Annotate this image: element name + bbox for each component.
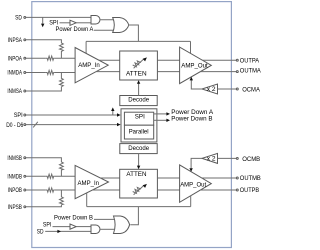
svg-text:OUTMB: OUTMB <box>240 175 261 182</box>
wire SPI to buffer <box>60 22 71 24</box>
svg-text:INMDA: INMDA <box>7 70 22 77</box>
pin OCMA <box>236 86 260 93</box>
svg-text:INMSB: INMSB <box>7 155 22 162</box>
power-down rail B <box>87 206 191 208</box>
wire AND B to OR B <box>100 228 115 230</box>
AND gate A <box>91 16 100 25</box>
wire INPOB to AMP_In B <box>54 189 75 191</box>
wire x2 A feedback <box>191 80 202 90</box>
pin INMSB <box>7 155 25 162</box>
wire Power Down A to OR A <box>94 29 115 31</box>
svg-text:OUTMA: OUTMA <box>240 68 262 75</box>
resistor INMDA-INMSA <box>60 73 64 87</box>
pin INPSA <box>8 37 26 44</box>
svg-text:Decode: Decode <box>128 97 149 104</box>
pin OUTMB <box>236 175 260 182</box>
SD down stub arrow <box>41 17 44 27</box>
wire OUTPB <box>201 189 237 191</box>
pin D0-D6 <box>6 122 26 129</box>
resistor INPSA-INPOA <box>60 43 64 58</box>
resistor INMDB series <box>46 174 55 178</box>
arrow x2 A into AMP_Out A <box>190 77 193 81</box>
wire ATTEN A to AMP_Out A bottom <box>157 71 179 73</box>
resistor INMSB-INMDB <box>60 162 64 176</box>
wire ATTEN B to AMP_Out B top <box>157 177 179 179</box>
op-amp AMP_Out B <box>180 165 212 202</box>
svg-text:INPOA: INPOA <box>8 55 23 62</box>
pin INPOA <box>8 55 26 62</box>
decoder Decode A <box>120 96 157 106</box>
svg-text:x 2: x 2 <box>207 86 216 93</box>
wire Power Down B to OR B <box>94 218 115 220</box>
pin SD (top) <box>15 14 26 21</box>
pin OUTPA <box>236 57 260 64</box>
resistor INPOA series <box>46 56 55 60</box>
pin INPSB <box>8 204 26 211</box>
wire SPI B to buffer <box>53 226 71 228</box>
OR gate B <box>114 216 130 234</box>
rail A drop to AMP_In A <box>85 41 87 53</box>
wire ATTEN A to AMP_Out A top <box>157 59 179 61</box>
wire Power Down A out <box>154 109 214 116</box>
svg-text:AMP_In: AMP_In <box>78 62 100 69</box>
svg-text:OUTPB: OUTPB <box>240 187 259 194</box>
wire OUTMA <box>200 71 236 73</box>
attenuator ATTEN B <box>120 169 158 198</box>
wire SD top <box>26 16 91 18</box>
svg-text:SPI: SPI <box>14 112 23 119</box>
SPI up stub arrow <box>111 107 114 115</box>
svg-text:x 2: x 2 <box>207 156 216 163</box>
wire OCMB <box>218 157 237 159</box>
OR gate A <box>113 18 129 33</box>
wire D0-D6 <box>26 124 118 126</box>
svg-text:AMP_Out: AMP_Out <box>180 182 206 189</box>
wire INMDB left <box>26 175 46 177</box>
wire buffer to AND A <box>76 22 91 24</box>
wire Power Down B out <box>154 115 213 122</box>
wire x2 B feedback <box>191 158 202 168</box>
decoder Decode B <box>120 144 157 154</box>
pin INPOB <box>8 187 26 194</box>
svg-text:INMSA: INMSA <box>7 88 22 95</box>
svg-text:SPI: SPI <box>43 222 52 229</box>
op-amp AMP_In B <box>75 165 108 198</box>
wire INMSA <box>26 87 62 91</box>
resistor INPOB-INPSB <box>60 190 64 205</box>
attenuator ATTEN A <box>120 51 158 80</box>
wire AMP_In B out top <box>101 177 120 179</box>
svg-text:SD: SD <box>15 14 22 21</box>
wire INMDA to AMP_In A <box>54 72 75 74</box>
svg-text:AMP_In: AMP_In <box>78 180 100 187</box>
rail B rise to AMP_Out B <box>190 196 192 207</box>
op-amp AMP_In A <box>75 48 108 83</box>
arrow Decode B to ATTEN B <box>137 154 140 170</box>
buffer B <box>70 224 76 229</box>
wire INPSA <box>26 40 62 43</box>
interface SPI block <box>124 112 153 125</box>
resistor INMDA series <box>46 70 55 74</box>
buffer A <box>70 20 76 25</box>
multiplier x2 B <box>202 153 218 163</box>
svg-text:D0 - D6: D0 - D6 <box>6 122 24 129</box>
pin INMDA <box>7 70 25 77</box>
wire OCMA <box>218 88 237 90</box>
wire INPOA to AMP_In A <box>54 57 75 59</box>
interface container box <box>121 109 157 142</box>
rail A drop to AMP_Out A <box>190 41 192 53</box>
pin SPI (middle) <box>14 112 26 119</box>
rail B rise to AMP_In B <box>86 193 88 207</box>
wire INPOA left <box>26 57 46 59</box>
svg-text:INPSA: INPSA <box>8 37 23 44</box>
svg-text:Power Down B: Power Down B <box>171 115 212 122</box>
bus slash D0-D6 <box>33 122 38 128</box>
svg-text:INMDB: INMDB <box>7 174 22 181</box>
wire AMP_In A out top <box>99 59 120 61</box>
wire INMDA left <box>26 72 46 74</box>
svg-text:Power Down A: Power Down A <box>56 26 95 33</box>
wire AND A to OR A <box>100 19 115 21</box>
wire SD B <box>45 230 91 232</box>
svg-text:OCMB: OCMB <box>242 156 260 163</box>
svg-text:Parallel: Parallel <box>129 129 149 136</box>
wire INMSB <box>26 158 62 162</box>
wire OUTMB <box>202 177 237 179</box>
svg-text:Power Down B: Power Down B <box>54 214 93 221</box>
pin INMDB <box>7 174 25 181</box>
wire buffer B to AND B <box>76 226 91 228</box>
pin OCMB <box>236 156 260 163</box>
wire AMP_In A out bottom <box>96 71 120 73</box>
svg-text:OUTPA: OUTPA <box>240 57 260 64</box>
arrow D0-D6 into Parallel block <box>117 123 121 126</box>
svg-text:Decode: Decode <box>128 145 149 152</box>
op-amp AMP_Out A <box>180 47 212 84</box>
svg-text:ATTEN: ATTEN <box>126 171 146 178</box>
power-down rail A <box>86 40 190 42</box>
wire INMDB to AMP_In B <box>54 175 75 177</box>
arrow SD B direction <box>57 230 61 233</box>
svg-text:SPI: SPI <box>135 114 145 121</box>
arrow x2 B into AMP_Out B <box>189 168 192 172</box>
multiplier x2 A <box>202 84 218 94</box>
wire SPI middle <box>26 114 118 116</box>
wire INPSB <box>26 205 62 207</box>
wire OR B output to rail B <box>130 207 138 225</box>
arrow Decode A to ATTEN A <box>137 80 140 95</box>
wire OUTPA <box>202 59 236 61</box>
interface Parallel block <box>124 125 153 139</box>
svg-text:SD: SD <box>37 229 44 236</box>
chip boundary box <box>32 2 232 248</box>
svg-text:INPSB: INPSB <box>8 204 22 211</box>
wire OR A output to rail A <box>129 25 139 41</box>
pin OUTPB <box>236 187 259 194</box>
wire ATTEN B to AMP_Out B bottom <box>157 189 179 191</box>
pin INMSA <box>7 88 25 95</box>
pin OUTMA <box>236 68 261 75</box>
resistor INPOB series <box>46 188 55 192</box>
svg-text:INPOB: INPOB <box>8 187 22 194</box>
svg-text:ATTEN: ATTEN <box>126 71 147 78</box>
wire INPOB left <box>26 189 46 191</box>
AND gate B <box>91 225 100 234</box>
arrow SPI into SPI block <box>117 113 121 116</box>
svg-text:OCMA: OCMA <box>242 86 261 93</box>
wire AMP_In B out bottom <box>93 189 120 191</box>
svg-text:AMP_Out: AMP_Out <box>181 63 208 70</box>
